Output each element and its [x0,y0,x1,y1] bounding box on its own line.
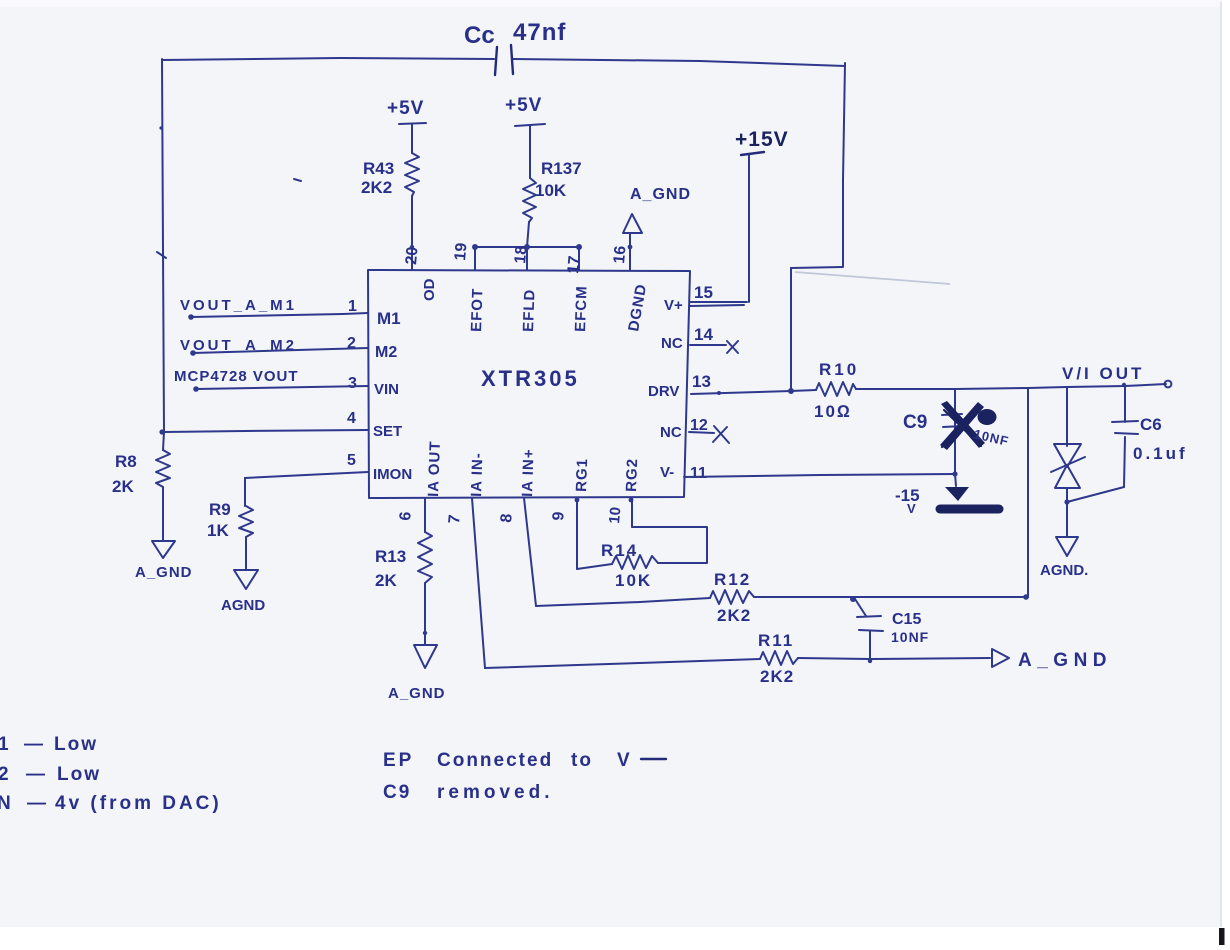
svg-text:Low: Low [54,734,98,755]
capacitor C6 [1124,386,1126,422]
wire pin 2 [193,348,368,353]
faint stray line [795,272,950,284]
wire pins 19-17 bus [475,246,579,248]
svg-text:+5V: +5V [505,95,542,116]
ground A_GND (pin 6) [414,645,437,668]
svg-text:19: 19 [452,242,470,261]
svg-text:47nf: 47nf [513,19,566,46]
svg-text:A_GND: A_GND [630,186,691,203]
svg-text:2K2: 2K2 [361,178,392,197]
svg-text:2K2: 2K2 [760,667,794,686]
resistor R9 [239,506,253,537]
svg-text:0.1uf: 0.1uf [1133,444,1188,463]
svg-text:11: 11 [690,465,707,482]
svg-text:5: 5 [347,452,356,469]
ground A_GND (R8) [152,541,175,558]
resistor R14 [612,555,658,569]
svg-text:V/I OUT: V/I OUT [1062,364,1144,383]
svg-text:V+: V+ [664,297,683,314]
svg-text:18: 18 [512,245,530,264]
svg-text:8: 8 [498,513,516,523]
svg-text:C9: C9 [383,782,411,803]
svg-text:AGND.: AGND. [1040,562,1088,579]
svg-text:R13: R13 [375,547,406,566]
resistor R12 [710,590,754,604]
svg-text:Cc: Cc [464,22,495,49]
wire pin 1 [191,313,368,317]
svg-text:RG2: RG2 [623,458,641,492]
svg-text:2K2: 2K2 [717,606,751,625]
svg-text:C15: C15 [892,611,921,628]
resistor R10 [816,382,856,396]
svg-text:C9: C9 [903,412,927,433]
svg-text:R14: R14 [601,541,638,560]
svg-text:13: 13 [692,372,711,391]
capacitor Cc [495,47,497,75]
svg-text:1K: 1K [207,521,229,540]
svg-text:IA IN+: IA IN+ [519,448,538,497]
wire left vertical [162,59,164,432]
wire pin 14 with X [690,344,726,346]
svg-text:removed.: removed. [437,782,553,803]
svg-text:9: 9 [550,511,568,521]
resistor R13 (pin 6) [424,498,426,532]
svg-text:2K: 2K [375,571,397,590]
svg-text:2K: 2K [112,477,134,496]
svg-text:3: 3 [348,375,357,392]
svg-text:4: 4 [347,410,356,427]
svg-text:+5V: +5V [387,98,424,119]
svg-text:15: 15 [694,283,713,302]
wire pin 12 with X [689,432,714,433]
svg-text:IMON: IMON [373,466,412,483]
ground AGND. right [1056,537,1078,556]
svg-text:Connected: Connected [437,750,553,771]
svg-text:OD: OD [421,278,438,301]
svg-text:—: — [24,734,43,755]
svg-text:VOUT_A_M1: VOUT_A_M1 [180,297,297,314]
svg-text:A_GND: A_GND [135,564,193,581]
output terminal [1165,381,1172,388]
svg-text:10Ω: 10Ω [814,402,852,421]
svg-text:Low: Low [57,764,101,785]
svg-text:EP: EP [383,750,414,771]
black mark bottom right [1219,928,1225,945]
X-out scribble over C9 [941,401,985,448]
svg-text:XTR305: XTR305 [481,366,580,391]
wire V- pin 11 [684,474,955,477]
arrow A_GND right [992,649,1009,667]
svg-text:NC: NC [660,424,682,441]
svg-text:10K: 10K [535,181,567,200]
svg-text:EFLD: EFLD [520,288,538,332]
wire pin 3 [196,386,368,389]
resistor R11 [760,651,798,665]
svg-text:—: — [26,764,45,785]
svg-text:A_GND: A_GND [1018,650,1112,671]
wire pin 15 to +15V [690,301,747,303]
svg-text:6: 6 [397,511,415,521]
svg-text:DRV: DRV [648,383,679,400]
svg-text:to: to [571,750,593,771]
resistor R137 [523,178,536,222]
svg-text:V-: V- [660,464,674,481]
diode TVS bidirectional [1066,387,1068,446]
svg-text:RG1: RG1 [573,458,591,492]
svg-text:R137: R137 [541,159,582,178]
wire pin 8 to R12 [524,498,536,606]
svg-text:4v (from DAC): 4v (from DAC) [55,793,222,814]
wire DRV pin 13 output line [691,390,816,394]
svg-text:C6: C6 [1140,415,1162,434]
svg-text:VIN: VIN [374,381,399,398]
svg-text:—: — [27,793,46,814]
svg-text:R9: R9 [209,500,231,519]
svg-text:N: N [0,793,11,814]
svg-text:R10: R10 [819,360,859,379]
resistor R8 [163,432,164,450]
wire top loop [162,58,494,60]
svg-text:20: 20 [403,246,421,265]
wire pin 4 [164,430,368,432]
svg-text:V: V [907,501,916,516]
svg-text:2: 2 [0,764,9,785]
op-amp U1 XTR305 IC body [368,270,690,498]
svg-text:A_GND: A_GND [388,685,446,702]
svg-text:M1: M1 [377,309,401,328]
resistor R43 [405,153,419,196]
wire C9 branch vertical [954,389,956,474]
svg-text:IA IN-: IA IN- [468,452,487,497]
svg-text:MCP4728 VOUT: MCP4728 VOUT [174,368,299,385]
capacitor C15 [850,596,856,602]
wire R12 vertical riser [1027,388,1029,597]
svg-text:10K: 10K [615,571,652,590]
svg-text:R43: R43 [363,159,394,178]
svg-text:17: 17 [565,255,583,274]
svg-text:IA OUT: IA OUT [425,440,444,497]
wire pin 7 to R11 [472,498,485,668]
svg-text:AGND: AGND [221,597,265,614]
svg-text:7: 7 [446,514,464,524]
wire pin 9 to R14 [576,498,578,569]
ground AGND (R9) [234,570,258,589]
svg-text:R8: R8 [115,452,137,471]
svg-text:V: V [617,750,630,771]
svg-text:M2: M2 [375,344,397,361]
svg-text:EFCM: EFCM [572,285,591,332]
-15V marker [955,474,956,486]
svg-text:R12: R12 [714,570,751,589]
svg-text:1: 1 [0,734,9,755]
svg-text:NC: NC [661,335,683,352]
svg-text:10: 10 [606,506,624,524]
svg-text:EFOT: EFOT [468,288,487,333]
svg-text:+15V: +15V [735,128,789,151]
svg-text:10NF: 10NF [891,629,929,645]
wire pin 5 [245,472,368,478]
svg-text:16: 16 [611,245,629,264]
svg-text:R11: R11 [758,631,794,650]
capacitor C9 [942,414,962,415]
svg-text:SET: SET [373,423,402,440]
svg-text:14: 14 [694,325,713,344]
svg-text:1: 1 [348,298,357,315]
